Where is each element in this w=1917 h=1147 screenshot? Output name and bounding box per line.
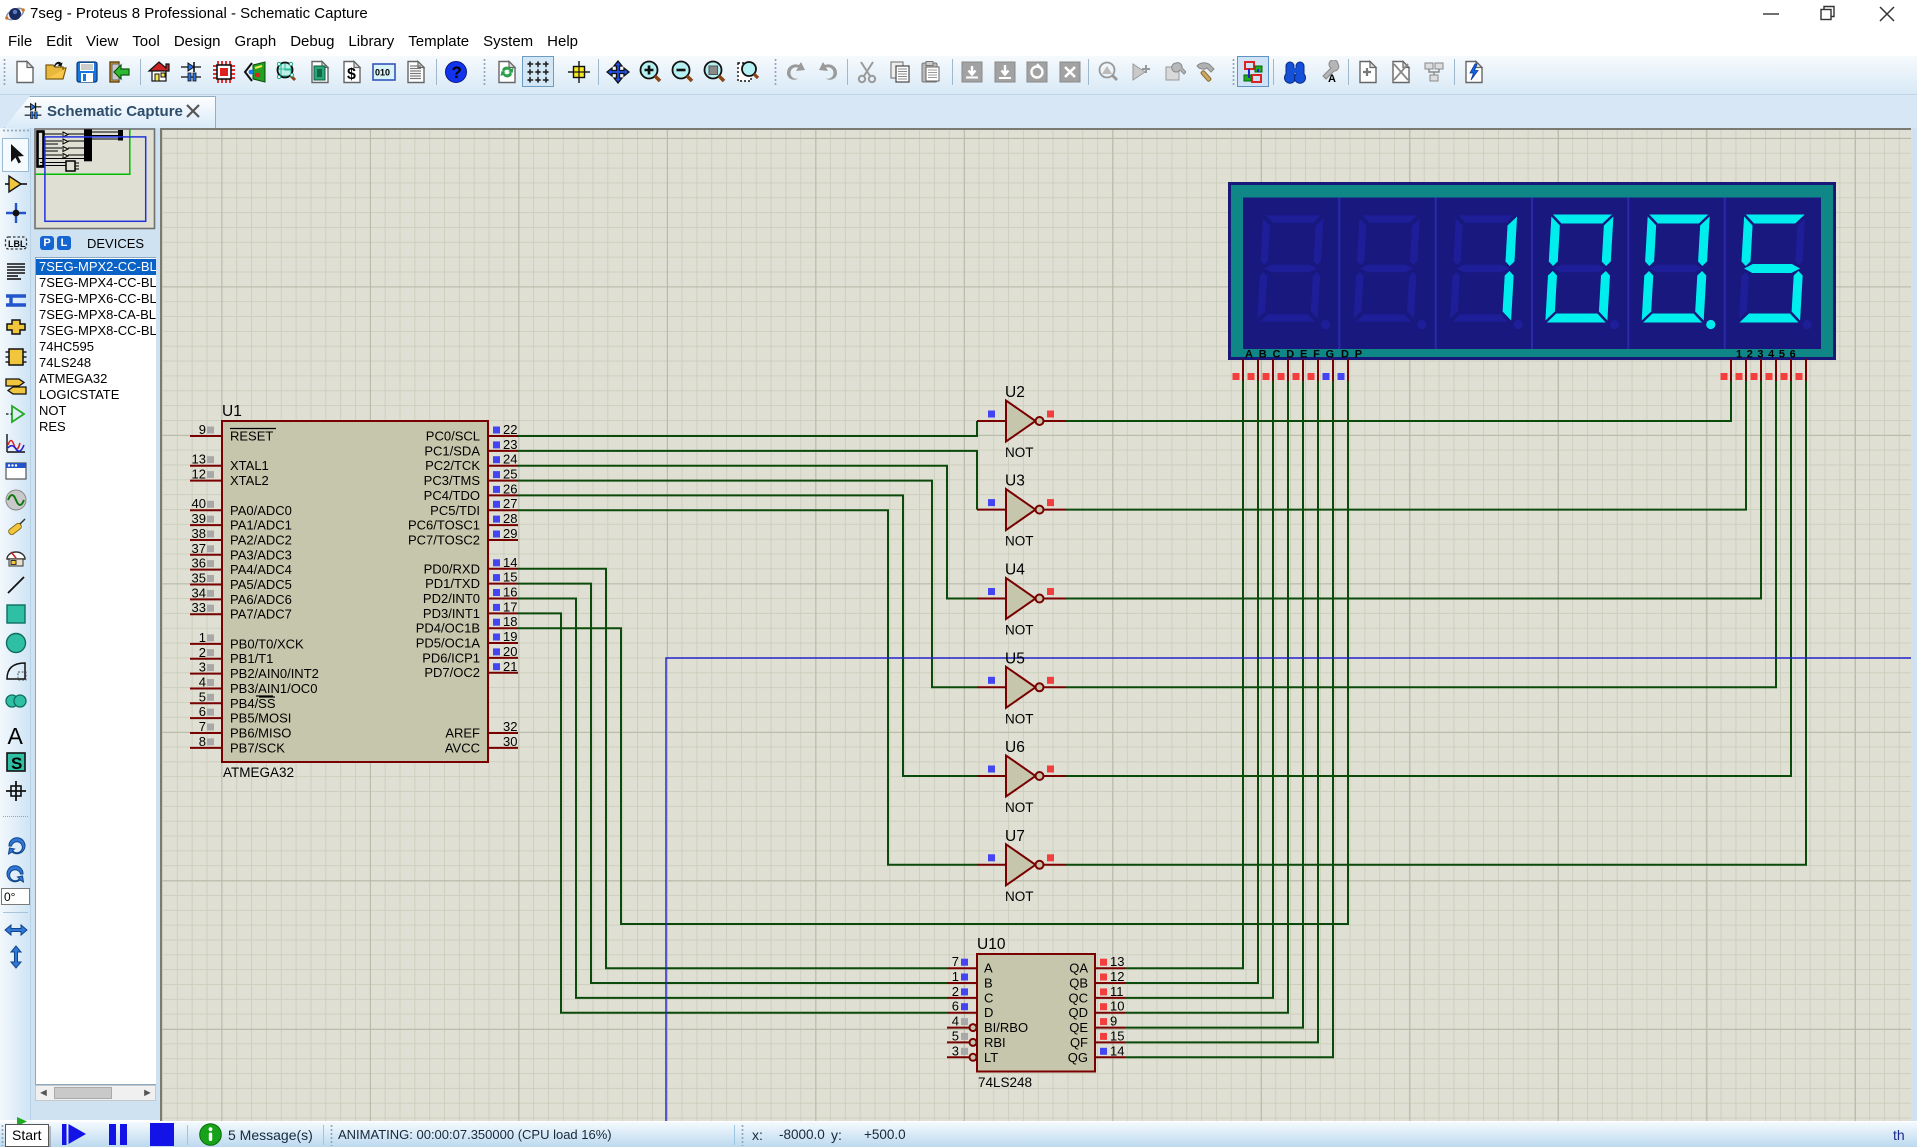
svg-text:PC1/SDA: PC1/SDA [424,443,480,458]
svg-text:123456: 123456 [1736,349,1800,361]
U1 pin 22 (PC0/SCL) [426,422,518,444]
svg-text:18: 18 [503,614,517,629]
U10 pin 11 (QC) [1069,984,1126,1006]
wire PC0 to U2 input [518,421,977,436]
left panel [31,128,160,1120]
svg-text:1: 1 [952,969,959,984]
svg-text:PB5/MOSI: PB5/MOSI [230,711,291,726]
svg-text:DP: DP [1341,349,1368,361]
U1 pin 19 (PD5/OC1A) [416,629,518,651]
display segment pin F [1308,359,1319,381]
svg-text:PC0/SCL: PC0/SCL [426,429,480,444]
wire U10 QA to display segment A [1125,381,1243,968]
svg-text:C: C [984,990,993,1005]
wire PC2 to U4 input [518,466,977,599]
U10 pin 10 (QD) [1069,999,1126,1021]
U1 pin 25 (PC3/TMS) [424,467,518,489]
svg-text:PA2/ADC2: PA2/ADC2 [230,533,292,548]
selection rubber-band rectangle [666,658,1911,1121]
display digit select pin 2 [1736,359,1747,381]
svg-text:U2: U2 [1005,384,1025,401]
status bar [0,1121,1917,1147]
NOT gate U6 [977,739,1066,815]
svg-text:NOT: NOT [1005,800,1034,815]
U1 pin 36 (PA4/ADC4) [190,556,292,578]
U1 pin 38 (PA2/ADC2) [190,526,292,548]
svg-text:2: 2 [199,645,206,660]
NOT gate U3 [977,473,1066,549]
svg-text:RESET: RESET [230,429,273,444]
display digit cell 5 [1642,215,1710,323]
svg-text:010: 010 [375,67,390,77]
left sidebar [0,128,31,1120]
wire U10 QG to display segment G [1125,381,1333,1057]
wire U10 QC to display segment C [1125,381,1273,998]
U1 pin 28 (PC6/TOSC1) [408,511,518,533]
svg-text:2: 2 [952,984,959,999]
wire PD1 to U10 B [518,584,947,983]
svg-text:PC6/TOSC1: PC6/TOSC1 [408,518,480,533]
display segment pin A [1233,359,1244,381]
svg-text:AREF: AREF [445,726,480,741]
U1 pin 8 (PB7/SCK) [190,734,285,756]
display digit select pin 6 [1796,359,1807,381]
U10 pin 14 (QG) [1068,1043,1125,1065]
svg-text:32: 32 [503,719,517,734]
svg-text:U1: U1 [222,403,242,420]
svg-text:QE: QE [1069,1020,1088,1035]
wire U4 output to display digit pin 3 [1066,381,1761,599]
display digit cell 3 [1449,215,1517,323]
svg-text:QD: QD [1069,1005,1089,1020]
svg-text:PB4/SS: PB4/SS [230,696,276,711]
U1 pin 9 (RESET) [190,422,276,444]
U10 pin 5 (RBI) [947,1028,1006,1050]
U1 pin 3 (PB2/AIN0/INT2) [190,660,319,682]
svg-text:NOT: NOT [1005,534,1034,549]
svg-text:24: 24 [503,452,517,467]
display digit cell 2 [1353,215,1421,323]
U1 pin 20 (PD6/ICP1) [422,644,518,666]
svg-text:36: 36 [192,556,206,571]
U1 pin 15 (PD1/TXD) [425,570,518,592]
display digit cell 1 [1256,215,1324,323]
svg-text:7: 7 [952,954,959,969]
U1 pin 39 (PA1/ADC1) [190,511,292,533]
display digit cell 4 [1545,215,1613,323]
wire U10 QB to display segment B [1125,381,1258,983]
svg-text:3: 3 [199,660,206,675]
svg-text:20: 20 [503,644,517,659]
svg-text:28: 28 [503,511,517,526]
display digit separator 5 [1724,198,1726,350]
display digit separator 2 [1435,198,1437,350]
svg-text:PD5/OC1A: PD5/OC1A [416,636,481,651]
U1 pin 18 (PD4/OC1B) [416,614,518,636]
svg-text:19: 19 [503,629,517,644]
U1 pin 32 (AREF) [445,719,518,741]
svg-text:A: A [7,724,23,748]
NOT gate U7 [977,828,1066,904]
U1 pin 5 (PB4/SS) [190,689,276,711]
display segment pin DP [1338,359,1349,381]
svg-text:40: 40 [192,496,206,511]
svg-text:QB: QB [1069,976,1088,991]
svg-text:NOT: NOT [1005,623,1034,638]
svg-text:38: 38 [192,526,206,541]
svg-text:6: 6 [199,704,206,719]
svg-text:22: 22 [503,422,517,437]
U1 pin 13 (XTAL1) [190,452,269,474]
svg-text:PD1/TXD: PD1/TXD [425,576,480,591]
U10 pin 2 (C) [947,984,993,1006]
svg-text:7: 7 [199,719,206,734]
svg-text:PD2/INT0: PD2/INT0 [423,591,480,606]
svg-text:U10: U10 [977,936,1006,953]
svg-text:A: A [1328,73,1336,84]
P button [40,236,54,250]
U10 pin 1 (B) [947,969,993,991]
wire PD2 to U10 C [518,599,947,998]
U1 pin 17 (PD3/INT1) [423,599,518,621]
svg-text:S: S [11,754,22,773]
svg-text:LBL: LBL [8,239,26,249]
wire PC3 to U5 input [518,481,977,688]
svg-text:PA4/ADC4: PA4/ADC4 [230,562,292,577]
svg-text:A: A [984,961,993,976]
svg-text:29: 29 [503,526,517,541]
svg-text:12: 12 [1110,969,1124,984]
U1 pin 24 (PC2/TCK) [425,452,518,474]
svg-text:74LS248: 74LS248 [978,1075,1032,1090]
svg-text:11: 11 [1110,984,1124,999]
wire U10 QD to display segment D [1125,381,1288,1013]
svg-text:21: 21 [503,659,517,674]
U1 pin 27 (PC5/TDI) [430,496,518,518]
svg-text:PB1/T1: PB1/T1 [230,651,273,666]
start tooltip [16,1117,38,1126]
U1 pin 7 (PB6/MISO) [190,719,291,741]
svg-text:QC: QC [1069,990,1089,1005]
display segment pin C [1263,359,1274,381]
svg-text:U3: U3 [1005,473,1025,490]
svg-text:D: D [984,1005,993,1020]
svg-text:25: 25 [503,467,517,482]
svg-text:PB2/AIN0/INT2: PB2/AIN0/INT2 [230,666,319,681]
svg-text:9: 9 [199,422,206,437]
display segment pin D [1278,359,1289,381]
U10 pin 13 (QA) [1069,954,1125,976]
svg-text:37: 37 [192,541,206,556]
svg-text:PB0/T0/XCK: PB0/T0/XCK [230,636,304,651]
svg-text:10: 10 [1110,999,1124,1014]
svg-text:XTAL2: XTAL2 [230,473,269,488]
U1 pin 23 (PC1/SDA) [424,437,518,459]
U1 pin 33 (PA7/ADC7) [190,600,292,622]
display digit cell 6 [1738,215,1806,323]
svg-text:15: 15 [1110,1028,1124,1043]
schematic canvas [162,128,1911,1121]
U1 pin 37 (PA3/ADC3) [190,541,292,563]
svg-text:NOT: NOT [1005,889,1034,904]
U10 pin 4 (BI/RBO) [947,1014,1028,1036]
wire U10 QE to display segment E [1125,381,1303,1028]
svg-text:PA1/ADC1: PA1/ADC1 [230,518,292,533]
L button [57,236,71,250]
svg-text:BI/RBO: BI/RBO [984,1020,1028,1035]
NOT gate U5 [977,650,1066,726]
svg-text:33: 33 [192,600,206,615]
svg-text:PC4/TDO: PC4/TDO [424,488,480,503]
wire PC4 to U6 input [518,495,977,776]
svg-text:5: 5 [952,1028,959,1043]
svg-text:PA5/ADC5: PA5/ADC5 [230,577,292,592]
svg-text:27: 27 [503,496,517,511]
wire PC5 to U7 input [518,510,977,865]
U1 pin 6 (PB5/MOSI) [190,704,291,726]
wire U3 output to display digit pin 2 [1066,381,1746,510]
display digit select pin 4 [1766,359,1777,381]
svg-text:PD0/RXD: PD0/RXD [424,561,480,576]
svg-text:30: 30 [503,734,517,749]
NOT gate U4 [977,562,1066,638]
display digit select pin 1 [1721,359,1732,381]
wire U7 output to display digit pin 6 [1066,381,1806,865]
svg-text:PD4/OC1B: PD4/OC1B [416,621,480,636]
svg-text:U6: U6 [1005,739,1025,756]
svg-text:QG: QG [1068,1050,1088,1065]
wire PC1 to U3 input [518,451,977,510]
svg-text:ATMEGA32: ATMEGA32 [223,765,294,780]
svg-text:PC2/TCK: PC2/TCK [425,458,480,473]
svg-text:PD6/ICP1: PD6/ICP1 [422,650,480,665]
svg-text:XTAL1: XTAL1 [230,458,269,473]
IC U1 ATMEGA32 body [222,421,488,762]
svg-text:17: 17 [503,599,517,614]
U10 pin 15 (QF) [1070,1028,1125,1050]
svg-text:4: 4 [952,1014,959,1029]
wire PD3 to U10 D [518,613,947,1012]
U1 pin 4 (PB3/AIN1/OC0) [190,675,317,697]
svg-text:?: ? [452,63,462,82]
svg-text:14: 14 [1110,1043,1124,1058]
svg-text:5: 5 [199,689,206,704]
U1 pin 2 (PB1/T1) [190,645,273,666]
display segment pin G [1323,359,1334,381]
U1 pin 26 (PC4/TDO) [424,481,518,503]
svg-text:PB3/AIN1/OC0: PB3/AIN1/OC0 [230,681,317,696]
toolbar [0,56,1917,95]
U1 pin 16 (PD2/INT0) [423,585,518,607]
wire PD4 to display DP pin [518,381,1348,924]
U10 pin 12 (QB) [1069,969,1125,991]
svg-text:$: $ [347,66,356,83]
wire U5 output to display digit pin 4 [1066,381,1776,687]
svg-text:34: 34 [192,585,206,600]
svg-text:ABCDEFG: ABCDEFG [1245,349,1340,361]
svg-text:4: 4 [199,675,206,690]
U10 pin 6 (D) [947,999,993,1021]
U10 pin 7 (A) [947,954,993,976]
svg-text:PB7/SCK: PB7/SCK [230,740,285,755]
wire U2 output to display digit pin 1 [1066,381,1731,421]
U1 pin 30 (AVCC) [445,734,518,756]
display digit separator 3 [1531,198,1533,350]
wire U10 QF to display segment F [1125,381,1318,1042]
svg-text:6: 6 [952,999,959,1014]
horizontal scrollbar [35,1085,156,1101]
svg-text:35: 35 [192,571,206,586]
right edge strip [1911,128,1917,1121]
U1 pin 34 (PA6/ADC6) [190,585,292,607]
U1 pin 1 (PB0/T0/XCK) [190,630,304,652]
title bar [0,0,1917,28]
svg-text:B: B [984,976,993,991]
wire U6 output to display digit pin 5 [1066,381,1791,776]
svg-text:39: 39 [192,511,206,526]
U1 pin 14 (PD0/RXD) [424,555,518,577]
U1 pin 40 (PA0/ADC0) [190,496,292,518]
svg-text:26: 26 [503,481,517,496]
svg-text:14: 14 [503,555,517,570]
U1 pin 12 (XTAL2) [190,467,269,489]
IC U10 74LS248 body [977,954,1095,1072]
svg-text:PA0/ADC0: PA0/ADC0 [230,503,292,518]
display digit separator 1 [1338,198,1340,350]
svg-text:NOT: NOT [1005,711,1034,726]
svg-text:LT: LT [984,1050,998,1065]
svg-text:AVCC: AVCC [445,740,480,755]
svg-text:U4: U4 [1005,562,1025,579]
svg-text:1: 1 [199,630,206,645]
display digit separator 4 [1627,198,1629,350]
svg-text:15: 15 [503,570,517,585]
U1 pin 21 (PD7/OC2) [424,659,518,680]
7-segment multiplexed display (7SEG-MPX6-CC-BL) [1230,184,1835,359]
svg-text:12: 12 [192,467,206,482]
devices list [35,257,156,1085]
tab bar [0,95,1917,128]
U10 pin 9 (QE) [1069,1014,1125,1036]
svg-text:PC3/TMS: PC3/TMS [424,473,481,488]
svg-text:U7: U7 [1005,828,1025,845]
svg-text:QA: QA [1069,961,1088,976]
svg-text:8: 8 [199,734,206,749]
display segment pin E [1293,359,1304,381]
svg-text:9: 9 [1110,1014,1117,1029]
svg-text:PA3/ADC3: PA3/ADC3 [230,547,292,562]
svg-text:16: 16 [503,585,517,600]
svg-text:PA6/ADC6: PA6/ADC6 [230,592,292,607]
svg-text:PC7/TOSC2: PC7/TOSC2 [408,533,480,548]
svg-text:RBI: RBI [984,1035,1006,1050]
svg-text:PD7/OC2: PD7/OC2 [424,665,480,680]
display digit select pin 3 [1751,359,1762,381]
U10 pin 3 (LT) [947,1043,998,1065]
svg-text:PC5/TDI: PC5/TDI [430,503,480,518]
display digit select pin 5 [1781,359,1792,381]
svg-text:3: 3 [952,1043,959,1058]
svg-text:23: 23 [503,437,517,452]
svg-text:NOT: NOT [1005,445,1034,460]
U1 pin 29 (PC7/TOSC2) [408,526,518,548]
U1 pin 35 (PA5/ADC5) [190,571,292,593]
menu bar [0,28,1917,56]
display segment pin B [1248,359,1259,381]
NOT gate U2 [977,384,1066,460]
svg-text:PA7/ADC7: PA7/ADC7 [230,607,292,622]
svg-text:PD3/INT1: PD3/INT1 [423,606,480,621]
svg-text:13: 13 [1110,954,1124,969]
svg-text:QF: QF [1070,1035,1088,1050]
svg-text:U5: U5 [1005,650,1025,667]
wire PD0 to U10 A [518,569,947,968]
svg-text:13: 13 [192,452,206,467]
svg-text:PB6/MISO: PB6/MISO [230,726,291,741]
